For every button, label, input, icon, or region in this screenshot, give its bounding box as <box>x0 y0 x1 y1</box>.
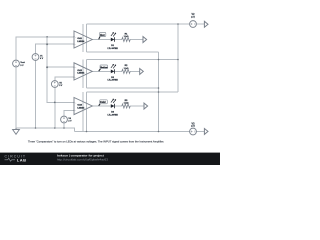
net flag V3 <box>204 129 208 135</box>
wire right rail <box>177 24 179 92</box>
LED D3 <box>108 99 119 116</box>
wire signal vertical <box>47 37 74 103</box>
wire box1 bottom <box>87 51 159 53</box>
opamp U1 power wire <box>82 24 84 52</box>
wire Vout bottom <box>15 67 17 128</box>
wire V2 to flag <box>196 23 204 25</box>
voltage source V1 <box>32 54 39 61</box>
svg-text:Hot: Hot <box>100 34 105 37</box>
op-amp OA1 <box>74 31 92 48</box>
node flag tag row1 <box>99 33 106 40</box>
resistor R2 <box>122 65 130 73</box>
wire V5 top to opamp2 minus <box>55 77 74 80</box>
node flag tag row2 <box>99 65 108 71</box>
LED D2 <box>108 64 119 81</box>
circuitlab logo <box>5 154 27 162</box>
chain wire row3 <box>92 105 144 107</box>
junction dots <box>35 23 179 132</box>
wire box3 top <box>87 91 179 93</box>
wire V3 to flag <box>196 131 204 133</box>
ground <box>13 128 20 134</box>
opamp U3 power wire <box>82 92 84 132</box>
svg-text:OA1: OA1 <box>77 37 82 40</box>
svg-text:Vout: Vout <box>20 61 25 64</box>
svg-text:LTL-307EE: LTL-307EE <box>108 80 119 82</box>
svg-text:1 kΩ: 1 kΩ <box>124 36 129 38</box>
voltage source V2 <box>190 21 197 28</box>
node flag tag row3 <box>99 100 108 106</box>
footer banner <box>0 153 220 165</box>
voltage source Vout <box>13 60 20 67</box>
svg-text:LAB: LAB <box>17 157 27 162</box>
svg-text:9 V: 9 V <box>191 16 195 19</box>
chain wire row1 <box>92 39 143 41</box>
wire right stub vertical <box>158 52 160 132</box>
opamp U2 power wire <box>82 60 84 89</box>
wire V5 bottom <box>54 87 56 128</box>
net flag row3 <box>144 103 148 109</box>
svg-text:Medium: Medium <box>100 67 107 69</box>
resistor R3 <box>122 100 130 108</box>
svg-text:OA2: OA2 <box>77 69 82 72</box>
svg-text:1 kΩ: 1 kΩ <box>124 68 129 70</box>
LED D1 <box>108 32 119 49</box>
wire box2 left edge <box>86 60 88 89</box>
svg-text:9 V: 9 V <box>191 125 195 128</box>
op-amp OA3 <box>74 98 92 115</box>
svg-text:LTL-307EE: LTL-307EE <box>108 48 119 50</box>
wire V4 bottom <box>63 123 65 128</box>
wire box2 top <box>87 59 179 61</box>
wire opamp2 plus branch <box>47 66 74 68</box>
voltage source V4 <box>61 116 68 123</box>
wire box1 left edge <box>86 24 88 52</box>
wire Vout top to noninverting inputs <box>16 37 74 60</box>
voltage source V3 <box>190 128 197 135</box>
op-amp OA2 <box>74 63 92 80</box>
net flag V2 <box>204 21 208 27</box>
voltage source V5 <box>51 81 58 88</box>
wire box3 left edge <box>86 92 88 132</box>
svg-text:Cold: Cold <box>100 102 106 104</box>
wire bottom to V3 <box>75 131 190 133</box>
net flag row2 <box>140 69 144 75</box>
svg-text:LM324: LM324 <box>77 40 85 43</box>
wire box2 bottom <box>87 87 159 89</box>
wire V1 bottom <box>35 60 37 128</box>
svg-text:OA3: OA3 <box>77 104 82 107</box>
svg-text:1 kΩ: 1 kΩ <box>124 102 129 104</box>
svg-text:Three “Comparators” to turn on: Three “Comparators” to turn on LEDs at v… <box>28 140 164 144</box>
svg-text:LM324: LM324 <box>77 72 85 75</box>
net flag row1 <box>143 37 147 43</box>
resistor R1 <box>122 33 130 41</box>
wire V+ top to V2 <box>87 23 190 25</box>
wire V4 top to opamp3 minus <box>64 111 74 117</box>
svg-text:http://circuitlab.com/c6q45pkw: http://circuitlab.com/c6q45pkwfe4av53 <box>57 158 108 162</box>
wire ground rail bottom left <box>16 128 75 132</box>
svg-text:LTL-307EE: LTL-307EE <box>108 114 119 116</box>
svg-text:LM324: LM324 <box>77 106 85 109</box>
chain wire row2 <box>92 70 139 72</box>
wire V1 top to opamp1 minus <box>36 44 75 53</box>
